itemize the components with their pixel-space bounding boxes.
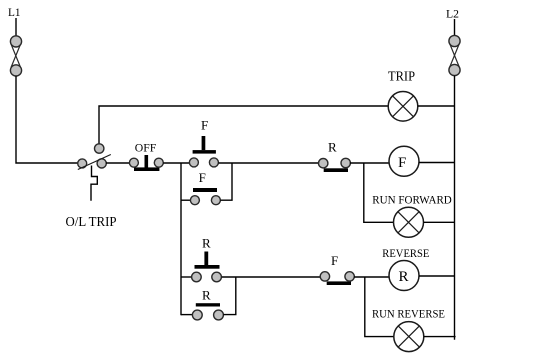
wire F contact to coil R (354, 276, 389, 278)
coil F (389, 146, 419, 176)
svg-text:REVERSE: REVERSE (382, 246, 429, 260)
contact F (NC interlock) (320, 253, 354, 285)
label O/L TRIP (66, 214, 117, 229)
fuse L2 (449, 19, 460, 76)
svg-text:R: R (399, 269, 409, 285)
wire O/L to OFF (106, 162, 130, 164)
wire R seal left (181, 314, 192, 316)
fuse L1 (10, 18, 21, 76)
svg-text:OFF: OFF (135, 141, 157, 155)
wire R button to F contact (222, 276, 320, 278)
wire R seal right (223, 277, 235, 315)
wire coil F to bus (419, 162, 455, 164)
svg-text:L1: L1 (8, 5, 21, 19)
svg-text:L2: L2 (446, 7, 459, 21)
pushbutton F (NO) (189, 118, 218, 167)
wire rung 2 left (181, 276, 193, 278)
wire F seal right (220, 163, 232, 200)
wire F seal left (181, 199, 190, 201)
O/L trip linkage (91, 166, 97, 201)
switch O/L TRIP (78, 144, 111, 170)
wire TRIP rung (99, 106, 388, 145)
svg-text:F: F (398, 155, 406, 171)
svg-text:RUN FORWARD: RUN FORWARD (372, 193, 452, 207)
coil R (389, 261, 419, 291)
svg-text:F: F (201, 118, 208, 133)
contact R seal (NO) (192, 288, 223, 320)
svg-text:R: R (328, 140, 337, 155)
wire TRIP lamp to bus (418, 105, 455, 107)
wire branch to RUN FORWARD lamp (364, 163, 394, 222)
svg-text:R: R (202, 236, 211, 251)
svg-text:O/L TRIP: O/L TRIP (66, 214, 117, 229)
pushbutton R (NO) (192, 236, 222, 282)
wire F button to R contact (218, 162, 318, 164)
lamp TRIP (388, 69, 418, 122)
wire coil R to bus (419, 275, 455, 277)
node L2 (446, 7, 459, 21)
svg-text:F: F (199, 170, 206, 185)
wire OFF to F button (163, 162, 189, 164)
wire RUN FORWARD lamp to bus (424, 221, 455, 223)
contact F seal (NO) (190, 170, 220, 205)
svg-text:F: F (331, 253, 338, 268)
wire L2 bus (454, 76, 456, 340)
lamp RUN REVERSE (394, 322, 424, 352)
wire left branch vertical (180, 163, 182, 315)
wire branch to RUN REVERSE lamp (365, 277, 394, 337)
lamp RUN FORWARD (394, 207, 424, 237)
svg-text:R: R (202, 288, 211, 303)
wire R contact to coil F (350, 162, 389, 164)
contact R (NC interlock) (319, 140, 351, 173)
wire L1 drop to rung 1 (16, 76, 79, 163)
wire RUN REVERSE lamp to bus (424, 336, 456, 338)
svg-text:TRIP: TRIP (388, 69, 415, 84)
pushbutton OFF (NC) (129, 141, 163, 172)
svg-text:RUN REVERSE: RUN REVERSE (372, 307, 445, 321)
label RUN REVERSE (372, 307, 445, 321)
node L1 (8, 5, 21, 19)
label RUN FORWARD (372, 193, 452, 207)
label REVERSE (382, 246, 429, 260)
